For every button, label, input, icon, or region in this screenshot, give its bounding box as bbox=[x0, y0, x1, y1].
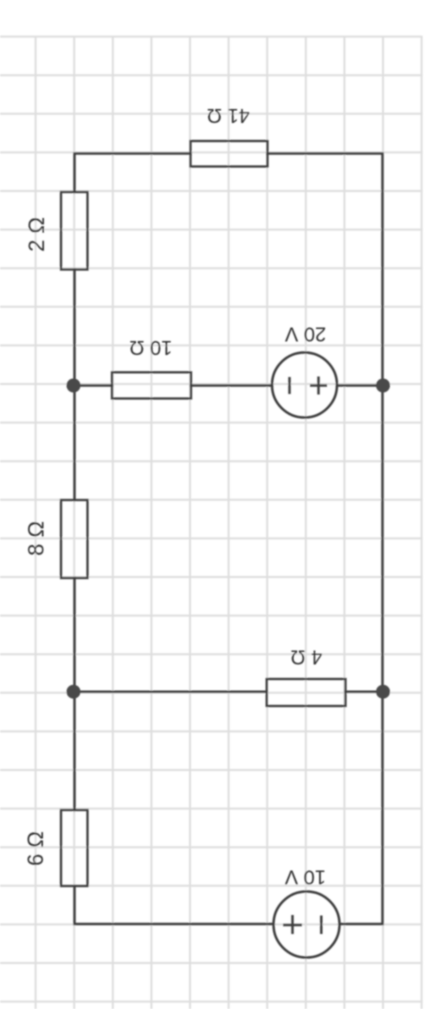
minus terminal bar bbox=[288, 377, 291, 394]
svg-text:41 Ω: 41 Ω bbox=[207, 104, 250, 126]
svg-text:2 Ω: 2 Ω bbox=[24, 217, 49, 252]
wire top left segment bbox=[75, 154, 191, 193]
plus sign bbox=[310, 384, 327, 387]
svg-text:10 Ω: 10 Ω bbox=[129, 336, 172, 358]
node A dot (left upper) bbox=[67, 379, 81, 393]
node D dot (right lower) bbox=[376, 685, 390, 699]
wire 20V source to node B bbox=[337, 384, 383, 387]
wire top right segment bbox=[268, 154, 383, 386]
minus terminal bar bbox=[320, 916, 323, 935]
wire node A to 10ohm bbox=[75, 384, 113, 387]
wire 6ohm to bottom left corner bbox=[75, 886, 274, 924]
svg-text:8 Ω: 8 Ω bbox=[23, 521, 48, 556]
node C dot (left lower) bbox=[67, 685, 81, 699]
wire node B to node D bbox=[381, 386, 384, 692]
resistor 6ohm (left bottom) bbox=[61, 810, 88, 886]
wire 8ohm to node C bbox=[73, 578, 76, 692]
plus sign bbox=[283, 924, 302, 927]
resistor 2ohm (left top) bbox=[61, 192, 88, 270]
wire 10V source to bottom right corner bbox=[340, 692, 383, 924]
svg-text:6 Ω: 6 Ω bbox=[23, 831, 48, 866]
svg-text:10 V: 10 V bbox=[284, 866, 326, 888]
resistor 41ohm (top) bbox=[191, 141, 268, 167]
svg-text:4 Ω: 4 Ω bbox=[291, 646, 323, 668]
resistor 4ohm (second middle wire) bbox=[267, 679, 346, 706]
voltage source 20V bbox=[272, 353, 337, 418]
wire node C to 6ohm bbox=[73, 692, 76, 810]
wire node C to 4ohm bbox=[75, 690, 267, 693]
resistor 10ohm (middle wire) bbox=[112, 372, 191, 398]
wire 4ohm to node D bbox=[346, 690, 383, 693]
resistor 8ohm (left middle) bbox=[61, 500, 88, 578]
voltage source 10V bbox=[274, 892, 340, 958]
wire left: 2ohm to node A bbox=[73, 270, 76, 386]
wire node A to 8ohm bbox=[73, 386, 76, 501]
wire 10ohm to 20V source bbox=[191, 384, 272, 387]
node B dot (right upper) bbox=[376, 379, 390, 393]
svg-text:20 V: 20 V bbox=[284, 322, 326, 344]
